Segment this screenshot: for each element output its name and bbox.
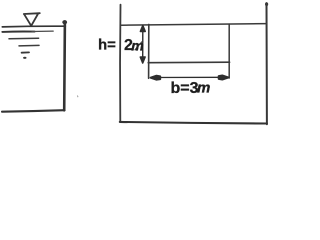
b dimension left arrowhead: [151, 76, 161, 80]
h dimension top arrowhead: [140, 26, 145, 32]
h dimension bottom arrowhead: [140, 57, 145, 63]
gate rectangle bottom edge: [148, 61, 229, 64]
free surface symbol (nabla triangle): [24, 13, 40, 26]
right tank left wall: [119, 5, 121, 122]
gate rectangle right edge with extension: [228, 24, 230, 78]
left tank wall top cap: [62, 20, 67, 24]
water surface line 1: [2, 25, 65, 28]
water surface line 4: [19, 44, 39, 47]
svg-text:h=: h=: [98, 36, 116, 53]
right tank right wall: [266, 3, 268, 124]
right tank right wall top cap: [265, 2, 268, 6]
water surface line 2 tail: [32, 30, 53, 32]
water surface line 2: [2, 31, 34, 33]
water surface line 5: [22, 51, 29, 53]
label 2m overlap stroke: [135, 42, 142, 50]
right tank bottom line: [120, 122, 267, 124]
h dimension line: [142, 28, 144, 60]
water surface dot: [23, 57, 26, 59]
svg-text:m: m: [131, 38, 143, 54]
stray tick mark: [76, 96, 79, 98]
water surface line 3: [9, 37, 39, 40]
gate rectangle left edge with extension: [148, 24, 150, 78]
svg-text:b=3: b=3: [171, 80, 199, 97]
left tank bottom: [2, 110, 65, 112]
svg-text:m: m: [197, 79, 210, 96]
b dimension line: [152, 76, 227, 78]
right tank top line: [120, 24, 266, 26]
left tank right wall: [63, 22, 66, 111]
b dimension right arrowhead: [219, 76, 229, 80]
